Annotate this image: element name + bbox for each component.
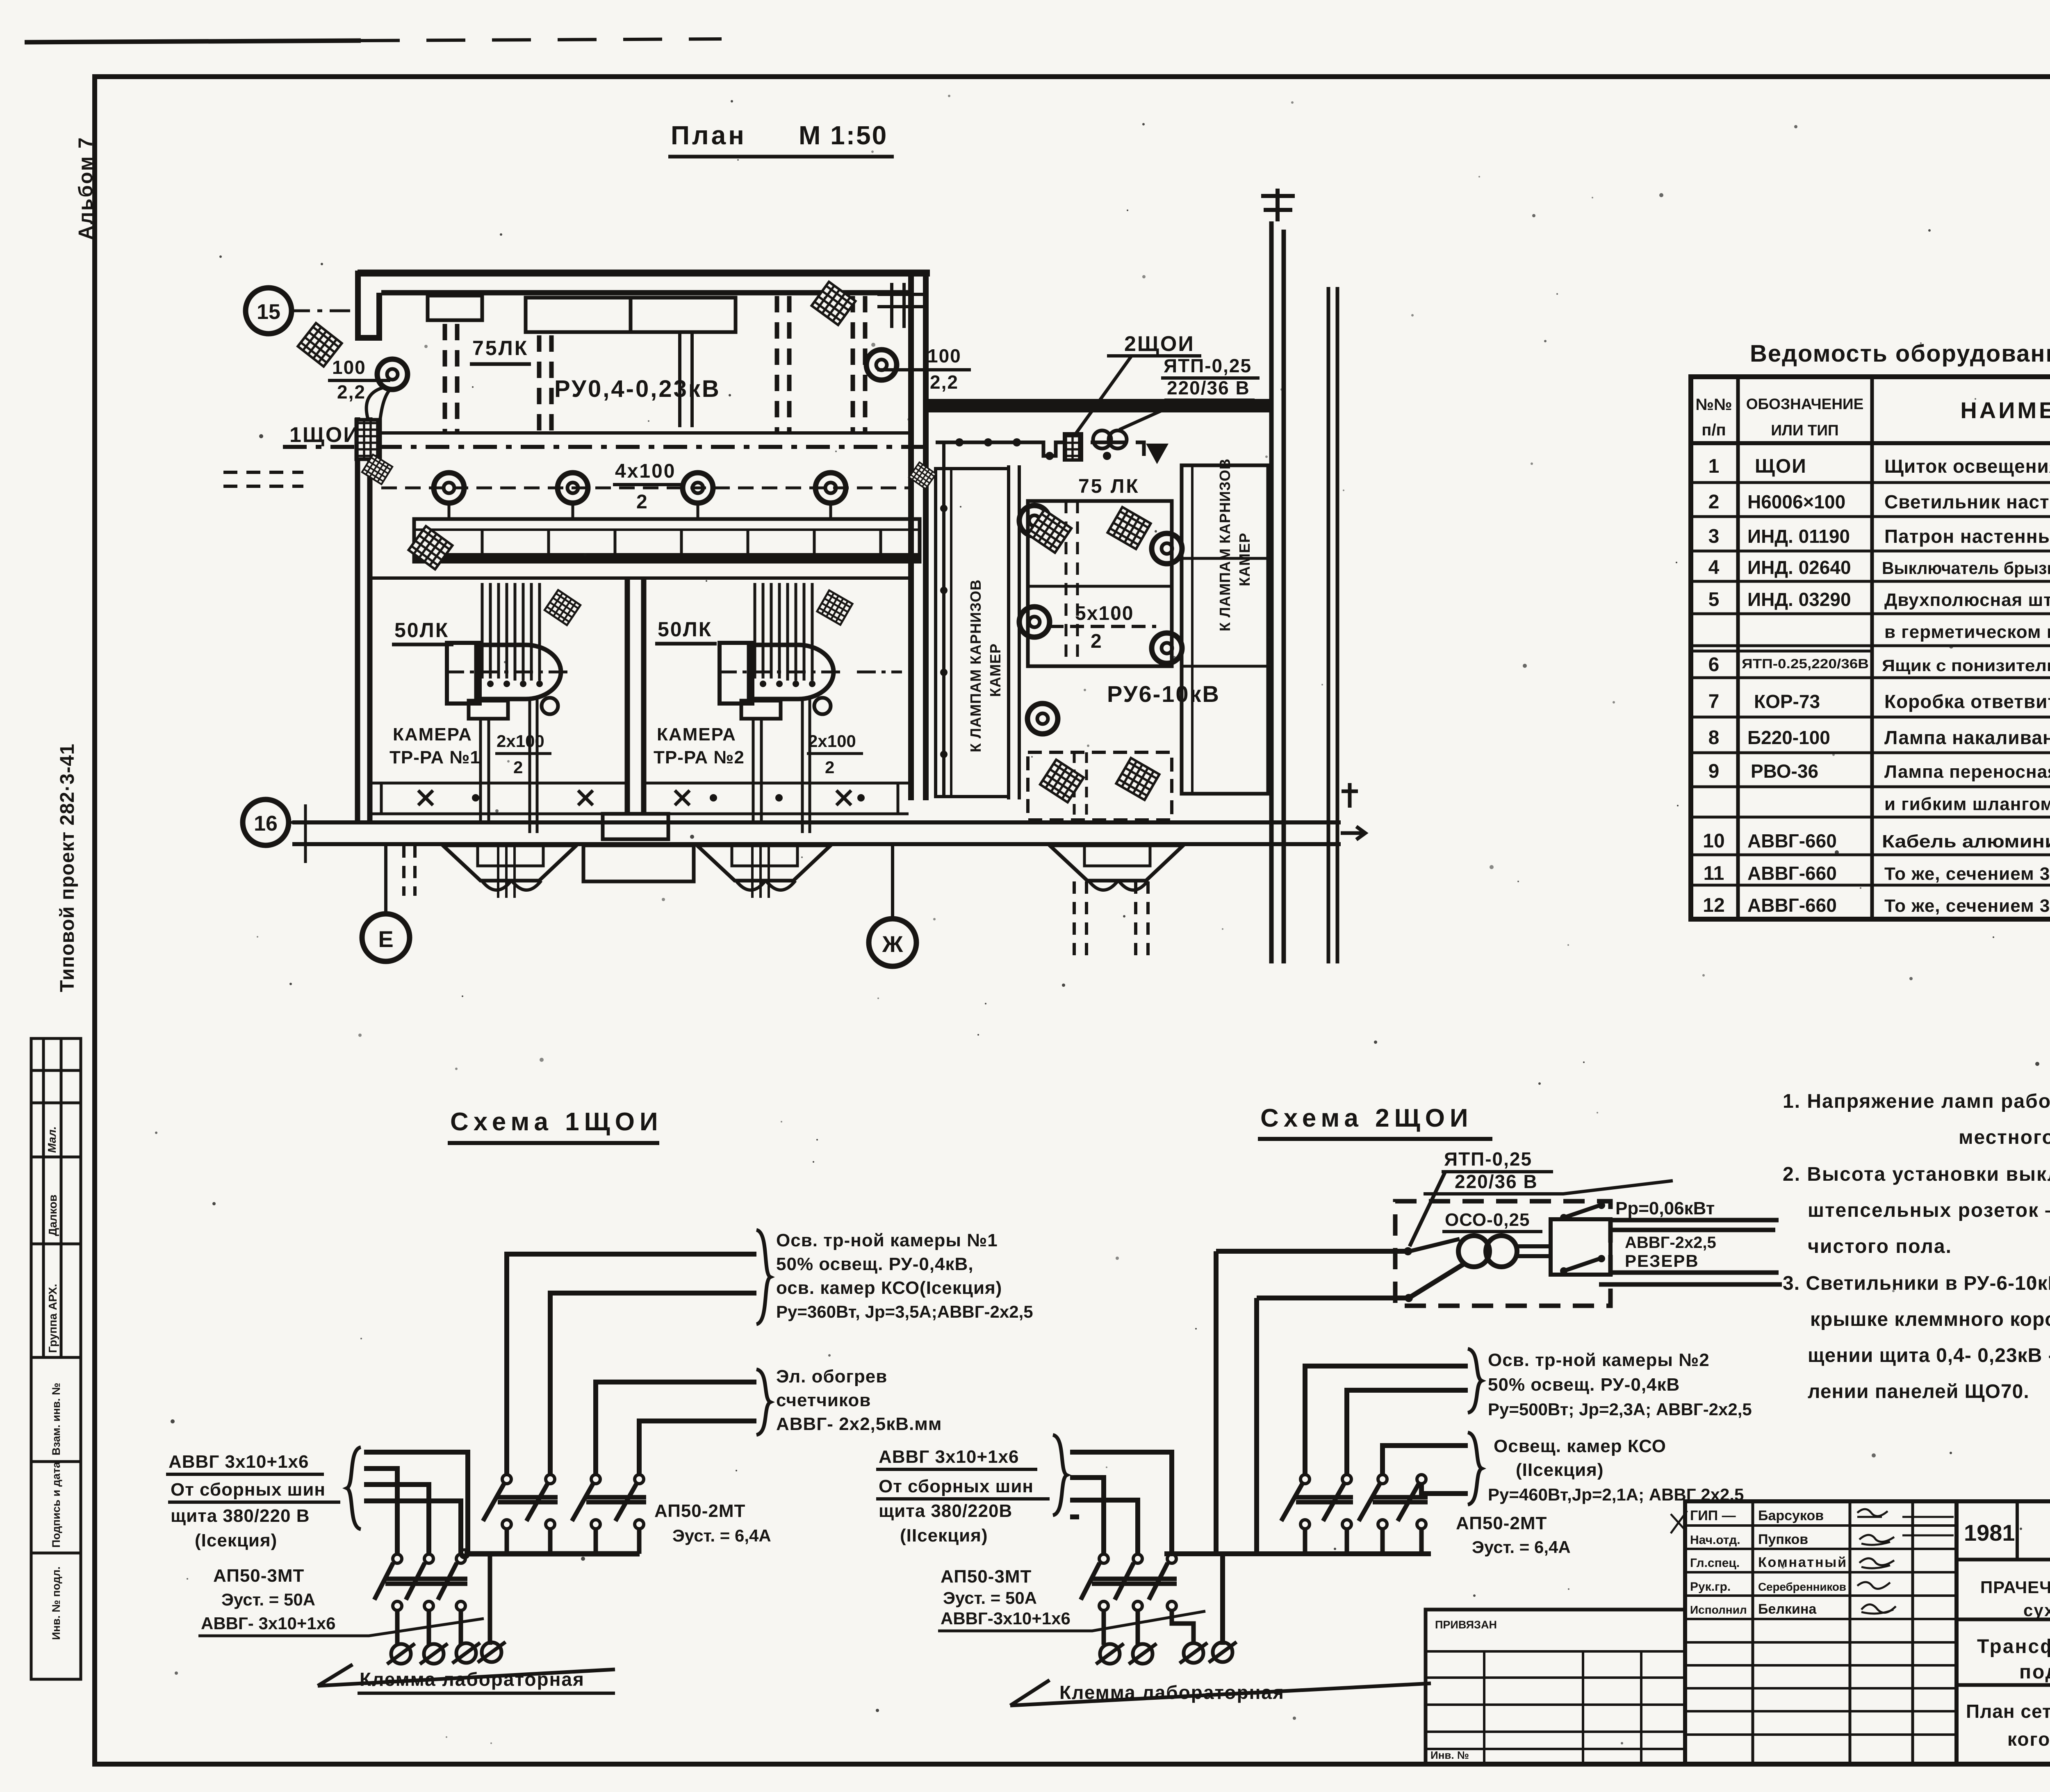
svg-text:4х100: 4х100 (615, 460, 676, 482)
svg-text:Серебренников: Серебренников (1758, 1580, 1846, 1593)
svg-text:№№: №№ (1695, 396, 1732, 414)
svg-text:50ЛК: 50ЛК (658, 618, 712, 641)
svg-text:Осв. тр-ной камеры №1: Осв. тр-ной камеры №1 (776, 1230, 998, 1250)
axis circle 15 (246, 288, 292, 334)
svg-text:Подпись и дата: Подпись и дата (50, 1462, 62, 1548)
svg-text:5х100: 5х100 (1075, 603, 1134, 624)
svg-text:10: 10 (1703, 830, 1724, 852)
output wires (1599, 1220, 1782, 1284)
svg-text:Осв. тр-ной камеры №2: Осв. тр-ной камеры №2 (1488, 1350, 1710, 1370)
svg-text:(IIсекция): (IIсекция) (1516, 1460, 1604, 1480)
svg-text:КАМЕР: КАМЕР (987, 643, 1004, 697)
svg-text:лении панелей ЩО70.: лении панелей ЩО70. (1808, 1381, 2029, 1403)
svg-text:220/36 В: 220/36 В (1455, 1171, 1538, 1192)
svg-text:Н6006×100: Н6006×100 (1747, 491, 1845, 512)
svg-text:План: План (671, 121, 747, 150)
svg-text:Ру=500Вт; Jр=2,3А; АВВГ-2х2,5: Ру=500Вт; Jр=2,3А; АВВГ-2х2,5 (1488, 1400, 1752, 1419)
svg-text:2: 2 (513, 758, 523, 777)
svg-text:Щиток освещения и испытаний.: Щиток освещения и испытаний. (1884, 455, 2050, 477)
svg-text:ПРИВЯЗАН: ПРИВЯЗАН (1435, 1619, 1497, 1631)
signature scribbles (1671, 1509, 1954, 1614)
svg-text:Светильник настенный, 100 Вт.: Светильник настенный, 100 Вт. (1884, 491, 2050, 512)
wire down along left strip (942, 442, 945, 795)
corridor lamp dash line (381, 487, 909, 490)
schema2 output bus (1164, 1551, 1431, 1556)
svg-text:АВВГ-3х10+1х6: АВВГ-3х10+1х6 (941, 1609, 1071, 1628)
bottom dashed squares row (1028, 752, 1172, 820)
svg-text:От сборных шин: От сборных шин (171, 1480, 326, 1500)
svg-text:Клемма лабораторная: Клемма лабораторная (1059, 1682, 1285, 1703)
lower-left extension grid (1426, 1610, 1685, 1764)
svg-text:2: 2 (825, 758, 834, 777)
svg-text:АП50-2МТ: АП50-2МТ (654, 1501, 745, 1521)
svg-text:Ведомость оборудования и матер: Ведомость оборудования и материалов (1750, 340, 2050, 367)
svg-text:Схема 1ЩОИ: Схема 1ЩОИ (450, 1108, 663, 1136)
svg-text:КАМЕР: КАМЕР (1236, 533, 1253, 586)
svg-text:АВВГ 3х10+1х6: АВВГ 3х10+1х6 (169, 1452, 309, 1472)
svg-text:Ящик с понизительным трансформ: Ящик с понизительным трансформатором (1882, 657, 2050, 675)
svg-text:АП50-2МТ: АП50-2МТ (1456, 1513, 1547, 1533)
svg-text:ИНД. 03290: ИНД. 03290 (1747, 589, 1851, 610)
wire pair to callout 2 (596, 1382, 756, 1475)
svg-text:То же, сечением 3х10+1х6 кВ.мм: То же, сечением 3х10+1х6 кВ.мм (1884, 896, 2050, 916)
svg-text:2ЩОИ: 2ЩОИ (1124, 332, 1195, 356)
svg-text:Эуст. = 50А: Эуст. = 50А (943, 1588, 1037, 1608)
svg-text:2х100: 2х100 (497, 731, 544, 751)
svg-text:ОБОЗНАЧЕНИЕ: ОБОЗНАЧЕНИЕ (1746, 396, 1864, 412)
chamber divider line under band (371, 576, 909, 580)
right big box (1957, 1501, 2050, 1764)
svg-text:75ЛК: 75ЛК (472, 337, 528, 360)
svg-text:К ЛАМПАМ КАРНИЗОВ: К ЛАМПАМ КАРНИЗОВ (967, 579, 984, 752)
transformer 2 (720, 643, 752, 704)
svg-text:Кабель алюминиевый сеч.2х2,5кВ: Кабель алюминиевый сеч.2х2,5кВ.мм (1882, 831, 2050, 852)
wall lamps row in corridor (434, 473, 464, 503)
svg-text:РУ0,4-0,23кВ: РУ0,4-0,23кВ (554, 376, 721, 402)
wall: middle wall between chambers (627, 579, 644, 814)
wall: top wall of RU-0.4 room (358, 270, 930, 277)
dashed stub lines going left to frame (223, 472, 303, 486)
transformer circles (1458, 1236, 1490, 1267)
svg-text:Освещ. камер КСО: Освещ. камер КСО (1494, 1436, 1666, 1456)
terminal base line schema2 (1010, 1683, 1431, 1705)
svg-text:крышке клеммного короба кам: крышке клеммного короба камер КСО-366, В… (1810, 1309, 2050, 1330)
breaker AP50-3MT poles (374, 1563, 467, 1645)
svg-text:ГИП —: ГИП — (1690, 1508, 1736, 1523)
svg-text:осв. камер КСО(Iсекция): осв. камер КСО(Iсекция) (776, 1278, 1002, 1298)
mast at top of right wall (1261, 189, 1295, 221)
wall: right building edge double wall (1269, 221, 1274, 963)
svg-text:То же, сечением 3х2,5кВ.мм: То же, сечением 3х2,5кВ.мм (1884, 864, 2050, 884)
svg-text:От сборных шин: От сборных шин (879, 1476, 1034, 1496)
svg-text:Типовой проект 282·3-41: Типовой проект 282·3-41 (57, 743, 78, 992)
left door lamp with hooks (377, 359, 408, 389)
foundation beam lines (292, 820, 1341, 824)
svg-text:2,2: 2,2 (337, 381, 366, 403)
dashed drops below right section (1074, 881, 1148, 955)
dashed cable drops in upper room (445, 296, 865, 433)
window cross symbol top right of upper room (877, 283, 925, 328)
svg-text:Гл.спец.: Гл.спец. (1690, 1556, 1740, 1570)
svg-text:штепсельных розеток — 0,8м от: штепсельных розеток — 0,8м от уровня (1808, 1200, 2050, 1221)
svg-text:НАИМЕНОВАНИЕ: НАИМЕНОВАНИЕ (1960, 397, 2050, 423)
svg-text:АВВГ- 3х10+1х6: АВВГ- 3х10+1х6 (201, 1614, 336, 1633)
svg-text:50% освещ. РУ-0,4кВ,: 50% освещ. РУ-0,4кВ, (776, 1254, 974, 1274)
svg-text:РЕЗЕРВ: РЕЗЕРВ (1625, 1251, 1699, 1271)
svg-text:50% освещ. РУ-0,4кВ: 50% освещ. РУ-0,4кВ (1488, 1375, 1680, 1395)
svg-text:АВВГ-660: АВВГ-660 (1747, 863, 1837, 884)
svg-text:п/п: п/п (1701, 421, 1726, 439)
svg-text:КАМЕРА: КАМЕРА (393, 724, 472, 745)
svg-text:6: 6 (1708, 654, 1720, 676)
svg-text:2: 2 (1091, 631, 1102, 652)
svg-text:К ЛАМПАМ КАРНИЗОВ: К ЛАМПАМ КАРНИЗОВ (1216, 458, 1233, 631)
svg-text:Барсуков: Барсуков (1758, 1508, 1824, 1523)
svg-text:Лампа переносная 36 В с сеткой: Лампа переносная 36 В с сеткой (1884, 762, 2050, 782)
reserve switch box (1551, 1219, 1610, 1275)
svg-text:1: 1 (1708, 455, 1720, 477)
svg-text:Клемма лабораторная: Клемма лабораторная (360, 1669, 585, 1690)
svg-text:РВО-36: РВО-36 (1751, 761, 1818, 782)
svg-text:Эл. обогрев: Эл. обогрев (776, 1366, 887, 1387)
inner wall double line (1009, 465, 1019, 799)
svg-text:15: 15 (257, 300, 280, 324)
svg-text:ЯТП-0.25,220/36В: ЯТП-0.25,220/36В (1742, 656, 1869, 671)
svg-text:Б220-100: Б220-100 (1747, 727, 1830, 748)
foundation pit 2 (697, 845, 831, 881)
svg-text:Далков: Далков (46, 1195, 59, 1236)
svg-text:Двухполюсная штепсельная розет: Двухполюсная штепсельная розетка (1884, 590, 2050, 610)
svg-text:АП50-3МТ: АП50-3МТ (213, 1566, 304, 1586)
svg-text:Коробка ответвительная: Коробка ответвительная (1884, 691, 2050, 712)
sheet top rule line (25, 41, 361, 42)
switch inside box (1410, 1239, 1460, 1251)
svg-text:и гибким шлангом сеч.3х2,5кВ.м: и гибким шлангом сеч.3х2,5кВ.мм (1884, 794, 2050, 814)
svg-text:3: 3 (1708, 526, 1720, 547)
YaTP transformer circles in plan (1093, 430, 1111, 449)
YaTP dashed box (1395, 1201, 1610, 1306)
svg-text:М 1:50: М 1:50 (799, 121, 888, 150)
lamp room (1028, 501, 1172, 666)
svg-text:Патрон настенный пластмассовый: Патрон настенный пластмассовый. (1884, 526, 2050, 547)
branch wires to callouts (1305, 1366, 1468, 1494)
AP50-2MT switch groups schema2 (1281, 1483, 1428, 1554)
svg-text:9: 9 (1708, 761, 1720, 782)
chamber bottom strip with X marks (371, 783, 909, 814)
terminal base line (318, 1669, 615, 1686)
svg-text:Взам. инв. №: Взам. инв. № (50, 1383, 62, 1455)
svg-text:11: 11 (1704, 863, 1724, 884)
svg-text:местного: местного (1959, 1127, 2050, 1148)
AP50-2MT switch groups (483, 1483, 646, 1554)
svg-text:2,2: 2,2 (930, 371, 959, 393)
svg-text:ТР-РА №2: ТР-РА №2 (654, 747, 745, 767)
svg-text:(Iсекция): (Iсекция) (195, 1530, 277, 1551)
left brace (347, 1447, 361, 1529)
svg-text:Ру=360Вт, Jр=3,5А;АВВГ-2х2,5: Ру=360Вт, Jр=3,5А;АВВГ-2х2,5 (776, 1302, 1033, 1321)
svg-text:Нач.отд.: Нач.отд. (1690, 1533, 1740, 1547)
svg-text:4: 4 (1708, 557, 1720, 578)
svg-text:Белкина: Белкина (1758, 1601, 1817, 1617)
svg-text:АВВГ- 2х2,5кВ.мм: АВВГ- 2х2,5кВ.мм (776, 1414, 942, 1434)
svg-text:Альбом 7: Альбом 7 (75, 136, 97, 240)
svg-text:чистого пола.: чистого пола. (1808, 1236, 1952, 1257)
svg-text:ИНД. 01190: ИНД. 01190 (1747, 526, 1850, 547)
svg-text:ЯТП-0,25: ЯТП-0,25 (1164, 355, 1252, 376)
svg-text:ОСО-0,25: ОСО-0,25 (1445, 1210, 1530, 1230)
wall: right wall of upper block (911, 271, 926, 800)
svg-text:1981: 1981 (1964, 1520, 2015, 1546)
left margin mini table (31, 1038, 81, 1679)
svg-text:подстанция.: подстанция. (2019, 1661, 2050, 1683)
svg-text:1. Напряжение ламп рабочего о: 1. Напряжение ламп рабочего освещения (1783, 1091, 2050, 1112)
svg-text:12: 12 (1703, 895, 1724, 916)
wires to reserve box (1517, 1246, 1551, 1256)
central foundation block (583, 845, 694, 881)
svg-text:Трансформаторная: Трансформаторная (1977, 1636, 2050, 1658)
wiring zigzag with junction dots (936, 442, 1144, 456)
chamber 2 cable bundle (755, 583, 812, 681)
svg-text:счетчиков: счетчиков (776, 1390, 871, 1410)
upper room bottom line + dashed wiring run (371, 431, 909, 435)
svg-text:ПРАЧЕЧНАЯ ПРОИЗВОДИТЕЛЬНОСТЬЮ: ПРАЧЕЧНАЯ ПРОИЗВОДИТЕЛЬНОСТЬЮ 5тонн (1980, 1578, 2050, 1597)
svg-text:(IIсекция): (IIсекция) (900, 1526, 988, 1546)
wall: top wall of RU6-10 section (928, 399, 1273, 412)
feeder bus wires (364, 1452, 468, 1554)
svg-text:ТР-РА №1: ТР-РА №1 (389, 747, 481, 767)
axis circle E (362, 914, 410, 961)
svg-text:Пупков: Пупков (1758, 1532, 1808, 1547)
brace KSO (1468, 1432, 1482, 1505)
brace callout 2 (756, 1369, 770, 1435)
svg-text:2: 2 (636, 491, 647, 513)
svg-text:5: 5 (1708, 589, 1720, 610)
svg-text:ИЛИ ТИП: ИЛИ ТИП (1771, 422, 1838, 439)
left strip box with vertical text (936, 469, 1009, 797)
svg-text:8: 8 (1708, 727, 1720, 749)
svg-text:2х100: 2х100 (808, 731, 856, 751)
svg-text:щита 380/220 В: щита 380/220 В (171, 1506, 310, 1526)
svg-text:Схема 2ЩОИ: Схема 2ЩОИ (1260, 1104, 1473, 1132)
dashed pair near E axis below beam (404, 845, 415, 896)
svg-text:Ж: Ж (882, 931, 903, 957)
transformer 1 (447, 643, 480, 704)
svg-text:РУ6-10кВ: РУ6-10кВ (1107, 681, 1220, 707)
wall: far right thin double wall (1328, 287, 1337, 963)
foundation pit 1 (443, 845, 576, 881)
svg-text:Инв. №: Инв. № (1430, 1749, 1469, 1761)
output bus (465, 1551, 640, 1557)
svg-text:ЯТП-0,25: ЯТП-0,25 (1444, 1148, 1532, 1170)
flag triangle (1146, 444, 1168, 464)
signatures table (1685, 1501, 1957, 1764)
svg-text:Мал.: Мал. (46, 1126, 58, 1153)
table grid (1691, 377, 2050, 919)
foundation pit right section (1050, 845, 1183, 881)
svg-text:Лампа накаливания 220В, 100Вт: Лампа накаливания 220В, 100Вт (1884, 727, 2050, 748)
SCHOI box symbol in plan (1064, 434, 1082, 460)
svg-text:Исполнил: Исполнил (1690, 1603, 1747, 1616)
svg-text:Комнатный: Комнатный (1758, 1555, 1846, 1570)
svg-text:75 ЛК: 75 ЛК (1078, 476, 1140, 497)
svg-text:3. Светильники в РУ-6-10кВ: 3. Светильники в РУ-6-10кВ устанавливают… (1783, 1273, 2050, 1294)
svg-text:Эуст. = 6,4А: Эуст. = 6,4А (1472, 1537, 1571, 1557)
brace camera 2 (1468, 1349, 1482, 1413)
svg-text:АВВГ-660: АВВГ-660 (1747, 895, 1837, 916)
svg-text:50ЛК: 50ЛК (394, 619, 449, 642)
svg-text:100: 100 (927, 345, 961, 367)
svg-text:кого освещения.: кого освещения. (2007, 1728, 2050, 1750)
ticks from lamps to band (449, 501, 831, 519)
axis circle 16 (243, 799, 289, 845)
terminal 4 drop from bus (488, 1554, 492, 1645)
svg-text:ИНД. 02640: ИНД. 02640 (1747, 557, 1851, 578)
svg-text:1ЩОИ: 1ЩОИ (289, 423, 360, 447)
feeder bus wires schema2 (1070, 1452, 1223, 1645)
input wires and risers (1216, 1251, 1465, 1554)
svg-text:КОР-73: КОР-73 (1754, 691, 1820, 712)
svg-text:Рр=0,06кВт: Рр=0,06кВт (1615, 1198, 1715, 1218)
svg-text:7: 7 (1708, 691, 1720, 713)
svg-text:щита 380/220В: щита 380/220В (879, 1501, 1012, 1521)
wall: left pilaster of top wall (355, 271, 382, 338)
svg-text:Эуст. = 6,4А: Эуст. = 6,4А (672, 1526, 771, 1545)
upper room interior rectangles (428, 296, 482, 320)
svg-text:Эуст. = 50А: Эуст. = 50А (221, 1590, 315, 1609)
right cabinet column (1182, 465, 1268, 794)
svg-text:2. Высота установки выключат: 2. Высота установки выключателей (1783, 1164, 2050, 1185)
svg-text:Е: Е (378, 926, 393, 952)
axis circle Zh (869, 919, 916, 966)
svg-text:2: 2 (1708, 491, 1720, 513)
svg-text:КАМЕРА: КАМЕРА (657, 724, 736, 745)
switchgear band (414, 519, 920, 562)
svg-text:Инв. № подл.: Инв. № подл. (50, 1567, 62, 1640)
svg-text:220/36 В: 220/36 В (1167, 377, 1250, 398)
svg-text:АВВГ 3х10+1х6: АВВГ 3х10+1х6 (879, 1447, 1019, 1467)
lab terminals schema2 (1096, 1644, 1124, 1664)
breaker AP50-3MT poles schema2 (1081, 1563, 1194, 1645)
brace callout 1 (756, 1230, 770, 1324)
svg-text:16: 16 (254, 812, 278, 836)
right brace schema2 feeder (1053, 1435, 1067, 1515)
svg-text:АВВГ-2х2,5: АВВГ-2х2,5 (1625, 1234, 1716, 1252)
svg-text:ЩОИ: ЩОИ (1755, 455, 1807, 477)
hatched cornice lamp squares on plan (298, 323, 342, 367)
svg-text:щении щита 0,4- 0,23кВ - на: щении щита 0,4- 0,23кВ - на верхнем обра… (1808, 1345, 2050, 1366)
svg-text:100: 100 (332, 357, 366, 378)
svg-text:АП50-3МТ: АП50-3МТ (941, 1567, 1032, 1587)
chamber 1 cable bundle (482, 583, 540, 681)
svg-text:Выключатель брызгонепроницаемы: Выключатель брызгонепроницаемый 6А,250В (1882, 558, 2050, 578)
100/2.2 right callout (866, 350, 897, 380)
lab terminals (387, 1644, 415, 1664)
svg-text:в герметическом исполнении 6А,: в герметическом исполнении 6А, 250В (1884, 622, 2050, 642)
svg-text:АВВГ-660: АВВГ-660 (1747, 830, 1837, 852)
svg-text:сухого белья в смену.: сухого белья в смену. (2023, 1601, 2050, 1620)
svg-text:Группа АРХ.: Группа АРХ. (46, 1284, 59, 1353)
wire pair to callout 1 (507, 1254, 756, 1475)
wall: building left wall (358, 417, 370, 822)
svg-text:Рук.гр.: Рук.гр. (1690, 1580, 1731, 1594)
svg-text:План сети электричес-: План сети электричес- (1966, 1701, 2050, 1722)
